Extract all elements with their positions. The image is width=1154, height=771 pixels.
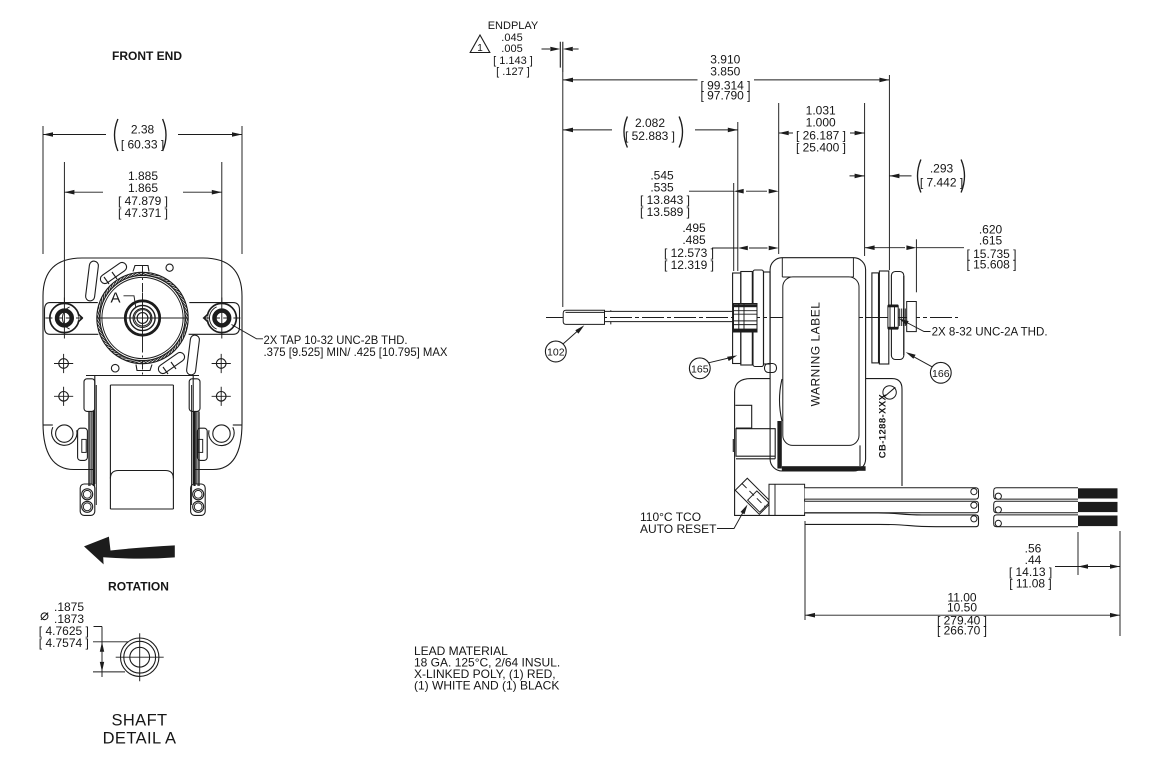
svg-text:[ 97.790 ]: [ 97.790 ] xyxy=(700,88,750,102)
balloon 102 xyxy=(545,341,566,362)
svg-text:SHAFT: SHAFT xyxy=(111,712,167,730)
dim .495 xyxy=(712,247,768,249)
coil dark bands xyxy=(777,421,781,469)
lamination side tab lower-left xyxy=(78,428,88,460)
svg-text:[ .127 ]: [ .127 ] xyxy=(496,66,530,78)
wire continuation group xyxy=(994,488,1078,499)
balloon 165 xyxy=(689,358,710,379)
lamination side tab upper-right xyxy=(189,379,200,412)
left hub xyxy=(734,304,758,333)
plate screw holes (4x cross circles) xyxy=(59,359,69,369)
main horizontal centerline xyxy=(546,317,958,319)
bobbin front: outer sides xyxy=(95,376,193,485)
svg-text:[ 60.33 ]: [ 60.33 ] xyxy=(121,138,164,152)
svg-text:1.865: 1.865 xyxy=(128,181,158,195)
svg-text:2.38: 2.38 xyxy=(131,123,155,137)
stamped channel right xyxy=(189,303,240,335)
svg-text:166: 166 xyxy=(932,368,950,380)
svg-text:[ 4.7574 ]: [ 4.7574 ] xyxy=(39,636,89,650)
svg-text:2X 8-32 UNC-2A THD.: 2X 8-32 UNC-2A THD. xyxy=(932,324,1048,338)
plate corner cutout bottom-left xyxy=(43,424,53,426)
svg-text:[ 25.400 ]: [ 25.400 ] xyxy=(796,140,846,154)
pole tab top xyxy=(133,266,149,272)
dim .545 xyxy=(734,122,738,271)
plate notch xyxy=(735,405,751,428)
balloon 166 xyxy=(930,362,951,383)
right bearing stack plates xyxy=(872,273,879,363)
svg-text:.293: .293 xyxy=(930,162,954,176)
lamination stack top edge xyxy=(95,377,193,510)
lamination side tab upper-left xyxy=(84,379,95,412)
pole tab bottom xyxy=(136,365,152,371)
svg-text:[ 47.371 ]: [ 47.371 ] xyxy=(118,206,168,220)
svg-text:[ 52.883 ]: [ 52.883 ] xyxy=(625,129,675,143)
dim 1.031 xyxy=(779,103,865,256)
mounting ear right xyxy=(207,303,236,332)
svg-text:.615: .615 xyxy=(979,233,1003,247)
flag note triangle 1 xyxy=(470,35,490,53)
svg-text:DETAIL A: DETAIL A xyxy=(103,730,177,748)
rotor bore circles with serrations xyxy=(97,272,188,363)
coil wrap line xyxy=(110,471,173,479)
rivet cylinders bottom-right xyxy=(157,335,200,376)
svg-text:2.082: 2.082 xyxy=(635,116,665,130)
svg-text:CB-1288-XXX: CB-1288-XXX xyxy=(878,393,889,458)
svg-text:[ 7.442 ]: [ 7.442 ] xyxy=(920,176,963,190)
svg-text:ROTATION: ROTATION xyxy=(108,580,169,594)
lamination side tab lower-right xyxy=(197,428,207,460)
mounting ear left xyxy=(50,303,79,332)
svg-text:.375 [9.525] MIN/ .425 [10.795: .375 [9.525] MIN/ .425 [10.795] MAX xyxy=(264,345,448,359)
shaft detail dim lines xyxy=(93,627,128,678)
warning label xyxy=(783,277,859,446)
lead wire 3 with jog xyxy=(805,513,979,527)
dim .56 xyxy=(1077,532,1079,575)
rivet cylinders top-left xyxy=(85,261,128,302)
dim 11.00 xyxy=(805,521,1120,636)
left bearing stack plates xyxy=(733,273,741,364)
svg-text:[ 12.319 ]: [ 12.319 ] xyxy=(664,258,714,272)
bobbin front: coil window xyxy=(110,385,173,509)
bobbin outer xyxy=(770,258,866,471)
screw xyxy=(883,386,896,399)
svg-text:WARNING LABEL: WARNING LABEL xyxy=(809,302,823,407)
stamped channel left xyxy=(45,303,99,335)
svg-text:A: A xyxy=(111,290,121,307)
rotation arrow xyxy=(84,537,175,565)
shaft main xyxy=(605,310,736,324)
svg-text:.485: .485 xyxy=(682,233,706,247)
lead connector xyxy=(769,484,805,515)
svg-text:165: 165 xyxy=(691,363,709,375)
svg-text:[ 11.08 ]: [ 11.08 ] xyxy=(1009,576,1051,590)
dim .293 xyxy=(850,175,912,177)
dim 2.082 xyxy=(563,129,738,131)
centerlines front view xyxy=(142,266,144,378)
svg-text:.005: .005 xyxy=(501,43,522,55)
TCO thermal cutoff xyxy=(735,478,771,514)
svg-text:1: 1 xyxy=(477,43,483,54)
leader 2X TAP note xyxy=(232,325,264,339)
svg-text:FRONT END: FRONT END xyxy=(112,49,182,63)
svg-text:(1) WHITE AND (1) BLACK: (1) WHITE AND (1) BLACK xyxy=(414,679,559,693)
bobbin feet xyxy=(80,484,95,515)
dim .620 xyxy=(915,239,917,292)
svg-text:[ 13.589 ]: [ 13.589 ] xyxy=(640,205,690,219)
svg-text:[ 266.70 ]: [ 266.70 ] xyxy=(937,623,987,637)
stripped black lead ends xyxy=(1078,488,1118,498)
dim 1.885 mounting holes xyxy=(64,162,221,302)
svg-text:[ 15.608 ]: [ 15.608 ] xyxy=(966,258,1016,272)
terminal box xyxy=(733,429,775,459)
svg-text:102: 102 xyxy=(547,347,565,359)
svg-text:3.850: 3.850 xyxy=(710,65,740,79)
svg-text:AUTO RESET: AUTO RESET xyxy=(640,522,717,536)
plate corner cutout bottom-right xyxy=(233,424,242,426)
threaded stud xyxy=(888,306,898,329)
dim 3.910 overall xyxy=(563,72,890,307)
svg-text:ENDPLAY: ENDPLAY xyxy=(488,20,539,32)
endplay gauge lines xyxy=(560,42,563,72)
shaft flat section xyxy=(563,310,604,324)
bracket plate outline xyxy=(735,379,902,516)
bearing hub center xyxy=(125,301,159,335)
lead wire 2 xyxy=(805,501,979,512)
small plate holes xyxy=(166,264,173,271)
svg-text:1.000: 1.000 xyxy=(806,115,836,129)
washer xyxy=(907,302,917,332)
shaft detail circles xyxy=(121,638,159,676)
lead wire 1 xyxy=(805,488,979,499)
svg-text:⌀: ⌀ xyxy=(40,607,49,624)
dim 2.38 width xyxy=(43,126,242,254)
front plate outline xyxy=(43,258,242,470)
